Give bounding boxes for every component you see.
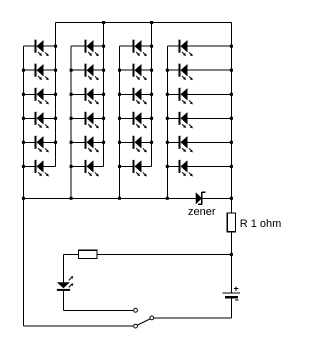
wire LED D21 anode stub xyxy=(167,93,178,95)
junction column 3 left rail row 5 xyxy=(118,141,121,144)
svg-text:zener: zener xyxy=(188,206,216,218)
wire LED D10 cathode stub xyxy=(94,117,104,119)
junction column 4 right rail row 3 xyxy=(230,93,233,96)
junction column 3 right rail row 4 xyxy=(150,117,153,120)
LED D14 xyxy=(133,64,147,81)
junction bottom bus / column 2 left rail xyxy=(70,197,73,200)
LED D6 xyxy=(35,160,49,177)
junction column 3 left rail row 4 xyxy=(118,117,121,120)
junction column 1 left rail row 4 xyxy=(22,117,25,120)
wire LED D5 anode stub xyxy=(23,141,34,143)
wire LED D17 cathode stub xyxy=(142,141,152,143)
svg-text:R 1 ohm: R 1 ohm xyxy=(240,218,282,230)
junction column 4 right rail row 4 xyxy=(230,117,233,120)
junction column 1 right rail row 4 xyxy=(54,117,57,120)
junction main rail / indicator branch xyxy=(230,253,233,256)
LED D20 xyxy=(179,64,193,81)
junction column 3 left rail row 3 xyxy=(118,93,121,96)
junction column 1 right rail row 1 xyxy=(54,45,57,48)
junction column 3 left rail row 2 xyxy=(118,69,121,72)
wire LED D6 anode stub xyxy=(23,165,34,167)
LED D11 xyxy=(85,136,99,153)
junction bottom bus / column 4 left rail xyxy=(166,197,169,200)
junction column 1 right rail row 2 xyxy=(54,69,57,72)
junction column 2 right rail row 2 xyxy=(102,69,105,72)
junction column 4 left rail row 6 xyxy=(166,165,169,168)
wire LED D7 cathode stub xyxy=(94,45,104,47)
wire resistor R2 to corner xyxy=(63,253,78,255)
wire LED D12 cathode stub xyxy=(94,165,104,167)
junction bottom bus / column 3 left rail xyxy=(118,197,121,200)
junction top bus / column 3 right rail xyxy=(150,21,153,24)
junction column 1 right rail row 5 xyxy=(54,141,57,144)
wire LED D22 cathode stub xyxy=(188,117,232,119)
wire battery negative down/corner xyxy=(230,298,232,317)
wire LED D8 anode stub xyxy=(71,69,84,71)
wire LED D21 cathode stub xyxy=(188,93,232,95)
junction column 2 right rail row 4 xyxy=(102,117,105,120)
wire column 2 left rail xyxy=(70,46,72,198)
wire bottom bus (cathode rail to zener) xyxy=(23,197,195,199)
wire bottom-left return (left rail to switch lower contact) xyxy=(23,325,133,327)
LED D9 xyxy=(85,88,99,105)
LED D12 xyxy=(85,160,99,177)
junction column 1 left rail row 3 xyxy=(22,93,25,96)
wire top bus xyxy=(56,22,232,24)
wire LED D22 anode stub xyxy=(167,117,178,119)
wire LED D18 anode stub xyxy=(120,165,133,167)
LED D22 xyxy=(179,112,193,129)
junction column 4 left rail row 3 xyxy=(166,93,169,96)
LED D5 xyxy=(35,136,49,153)
wire LED D4 cathode stub xyxy=(44,117,56,119)
junction column 1 left rail row 2 xyxy=(22,69,25,72)
LED D10 xyxy=(85,112,99,129)
wire LED D1 cathode stub xyxy=(44,45,56,47)
junction column 2 left rail row 5 xyxy=(70,141,73,144)
wire LED D3 anode stub xyxy=(23,93,34,95)
LED D16 xyxy=(133,112,147,129)
LED D19 xyxy=(179,40,193,57)
switch lever xyxy=(137,319,150,325)
junction column 3 right rail row 5 xyxy=(150,141,153,144)
wire LED D15 anode stub xyxy=(120,93,133,95)
junction column 2 left rail row 3 xyxy=(70,93,73,96)
junction column 3 right rail row 1 xyxy=(150,45,153,48)
wire column 4 left rail xyxy=(166,46,168,198)
LED D17 xyxy=(133,136,147,153)
wire column 3 right rail xyxy=(151,23,153,167)
junction column 2 left rail row 2 xyxy=(70,69,73,72)
LED D21 xyxy=(179,88,193,105)
LED D18 xyxy=(133,160,147,177)
junction column 1 right rail row 3 xyxy=(54,93,57,96)
wire main rail (resistor R to battery) xyxy=(230,232,232,293)
wire switch pole to battery negative xyxy=(154,317,231,319)
LED D13 xyxy=(133,40,147,57)
wire indicator branch to switch upper contact xyxy=(63,309,133,311)
wire LED D19 cathode stub xyxy=(188,45,232,47)
wire LED D24 anode stub xyxy=(167,165,178,167)
wire indicator branch (main rail to resistor R2) xyxy=(97,253,231,255)
wire LED D12 anode stub xyxy=(71,165,84,167)
wire LED D23 anode stub xyxy=(167,141,178,143)
LED D24 xyxy=(179,160,193,177)
LED D25 (indicator) xyxy=(57,276,74,291)
wire LED D16 cathode stub xyxy=(142,117,152,119)
wire indicator LED cathode down xyxy=(62,291,64,310)
battery BT1 xyxy=(223,293,241,297)
junction column 2 right rail row 1 xyxy=(102,45,105,48)
zener diode xyxy=(196,192,206,205)
junction column 2 left rail row 4 xyxy=(70,117,73,120)
wire column 1 right rail xyxy=(55,23,57,167)
switch pole terminal xyxy=(150,316,154,320)
junction column 2 left rail row 6 xyxy=(70,165,73,168)
wire LED D10 anode stub xyxy=(71,117,84,119)
resistor R1 (R 1 ohm) xyxy=(227,213,235,232)
junction column 4 left rail row 2 xyxy=(166,69,169,72)
LED D3 xyxy=(35,88,49,105)
wire LED D20 cathode stub xyxy=(188,69,232,71)
LED D15 xyxy=(133,88,147,105)
wire LED D13 anode stub xyxy=(120,45,133,47)
switch upper contact terminal xyxy=(134,308,138,312)
wire column 1 left rail (continues to bottom-left corner) xyxy=(22,46,24,326)
junction column 4 right rail row 1 xyxy=(230,45,233,48)
junction column 4 left rail row 4 xyxy=(166,117,169,120)
wire LED D7 anode stub xyxy=(71,45,84,47)
junction main rail / zener branch xyxy=(230,197,233,200)
wire LED D18 cathode stub xyxy=(142,165,152,167)
switch lower contact terminal xyxy=(134,324,138,328)
junction column 3 right rail row 3 xyxy=(150,93,153,96)
wire LED D13 cathode stub xyxy=(142,45,152,47)
wire LED D4 anode stub xyxy=(23,117,34,119)
LED D23 xyxy=(179,136,193,153)
wire LED D5 cathode stub xyxy=(44,141,56,143)
junction column 3 left rail row 6 xyxy=(118,165,121,168)
wire LED D19 anode stub xyxy=(167,45,178,47)
wire corner down to indicator LED anode xyxy=(62,254,64,282)
wire LED D24 cathode stub xyxy=(188,165,232,167)
resistor R2 (indicator series resistor) xyxy=(78,250,97,258)
junction column 2 right rail row 5 xyxy=(102,141,105,144)
wire LED D2 cathode stub xyxy=(44,69,56,71)
wire LED D3 cathode stub xyxy=(44,93,56,95)
wire LED D16 anode stub xyxy=(120,117,133,119)
wire LED D9 cathode stub xyxy=(94,93,104,95)
junction column 4 right rail row 2 xyxy=(230,69,233,72)
wire LED D23 cathode stub xyxy=(188,141,232,143)
wire LED D2 anode stub xyxy=(23,69,34,71)
wire LED D9 anode stub xyxy=(71,93,84,95)
wire zener cathode to main rail xyxy=(203,197,232,199)
wire column 3 left rail xyxy=(119,46,121,198)
LED D7 xyxy=(85,40,99,57)
LED D4 xyxy=(35,112,49,129)
wire main right rail (top bus to resistor R) xyxy=(230,23,232,213)
LED D2 xyxy=(35,64,49,81)
wire LED D8 cathode stub xyxy=(94,69,104,71)
junction column 4 right rail row 5 xyxy=(230,141,233,144)
junction bottom bus / column 1 left rail xyxy=(22,197,25,200)
junction column 1 left rail row 6 xyxy=(22,165,25,168)
LED D1 xyxy=(35,40,49,57)
wire LED D14 cathode stub xyxy=(142,69,152,71)
junction column 1 left rail row 5 xyxy=(22,141,25,144)
wire LED D17 anode stub xyxy=(120,141,133,143)
battery plus label xyxy=(234,286,238,290)
wire LED D6 cathode stub xyxy=(44,165,56,167)
wire LED D14 anode stub xyxy=(120,69,133,71)
battery minus label xyxy=(235,299,239,301)
junction column 3 right rail row 2 xyxy=(150,69,153,72)
junction column 4 left rail row 5 xyxy=(166,141,169,144)
wire LED D15 cathode stub xyxy=(142,93,152,95)
junction column 2 right rail row 3 xyxy=(102,93,105,96)
wire LED D11 cathode stub xyxy=(94,141,104,143)
wire LED D20 anode stub xyxy=(167,69,178,71)
junction top bus / column 2 right rail xyxy=(102,21,105,24)
wire LED D11 anode stub xyxy=(71,141,84,143)
wire LED D1 anode stub xyxy=(23,45,34,47)
LED D8 xyxy=(85,64,99,81)
junction column 4 right rail row 6 xyxy=(230,165,233,168)
wire column 2 right rail xyxy=(103,23,105,167)
